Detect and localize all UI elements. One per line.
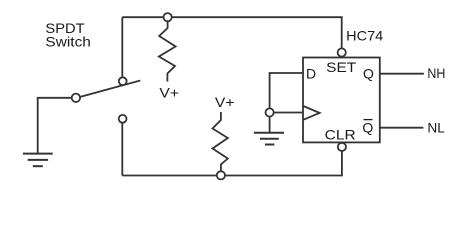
flip-flop U1 HC74 body <box>303 58 380 143</box>
wire upper throw to top rail <box>121 17 123 81</box>
junction node on top rail <box>164 13 172 21</box>
wire junction to ground <box>269 113 271 133</box>
pin CLR terminal <box>338 143 346 151</box>
label HC74 <box>346 27 383 43</box>
switch SW1 lever <box>80 81 140 97</box>
junction node clock/D <box>266 108 274 116</box>
pin label SET <box>326 59 356 75</box>
switch lower throw terminal <box>119 115 127 123</box>
switch upper throw terminal <box>119 77 127 85</box>
wire switch common to ground <box>38 98 76 154</box>
wire lower throw to bottom rail <box>121 119 123 176</box>
svg-text:SET: SET <box>326 59 356 75</box>
pin label Q <box>363 65 374 81</box>
wire clock net <box>270 112 303 114</box>
svg-text:Q: Q <box>362 120 373 136</box>
ground GND1 <box>23 154 53 167</box>
svg-text:Switch: Switch <box>45 33 91 49</box>
label NH <box>427 65 445 81</box>
resistor R1 <box>159 17 176 81</box>
label NL <box>427 119 445 135</box>
pin label CLR <box>325 126 356 142</box>
pin SET terminal <box>338 48 346 56</box>
pin label Qbar <box>362 120 373 136</box>
resistor R2 <box>213 112 228 175</box>
wire D input net <box>270 73 303 113</box>
svg-text:HC74: HC74 <box>346 27 383 43</box>
svg-text:D: D <box>306 66 316 82</box>
svg-text:V+: V+ <box>159 85 179 101</box>
clock input triangle <box>303 106 319 120</box>
wire Q output <box>380 73 424 75</box>
svg-text:V+: V+ <box>215 94 235 110</box>
wire top rail to SET pin <box>122 17 341 52</box>
wire Qbar output <box>380 127 424 129</box>
label V+ for R2 <box>215 94 235 110</box>
wire bottom rail to CLR pin <box>122 147 342 176</box>
switch common terminal <box>72 94 80 102</box>
junction node on bottom rail <box>217 171 225 179</box>
pin label D <box>306 66 316 82</box>
svg-text:CLR: CLR <box>325 126 356 142</box>
svg-text:NH: NH <box>427 65 445 81</box>
svg-text:NL: NL <box>427 119 445 135</box>
ground GND2 <box>254 133 284 145</box>
label SPDT Switch <box>45 20 91 50</box>
label V+ for R1 <box>159 85 179 101</box>
svg-text:Q: Q <box>363 65 374 81</box>
